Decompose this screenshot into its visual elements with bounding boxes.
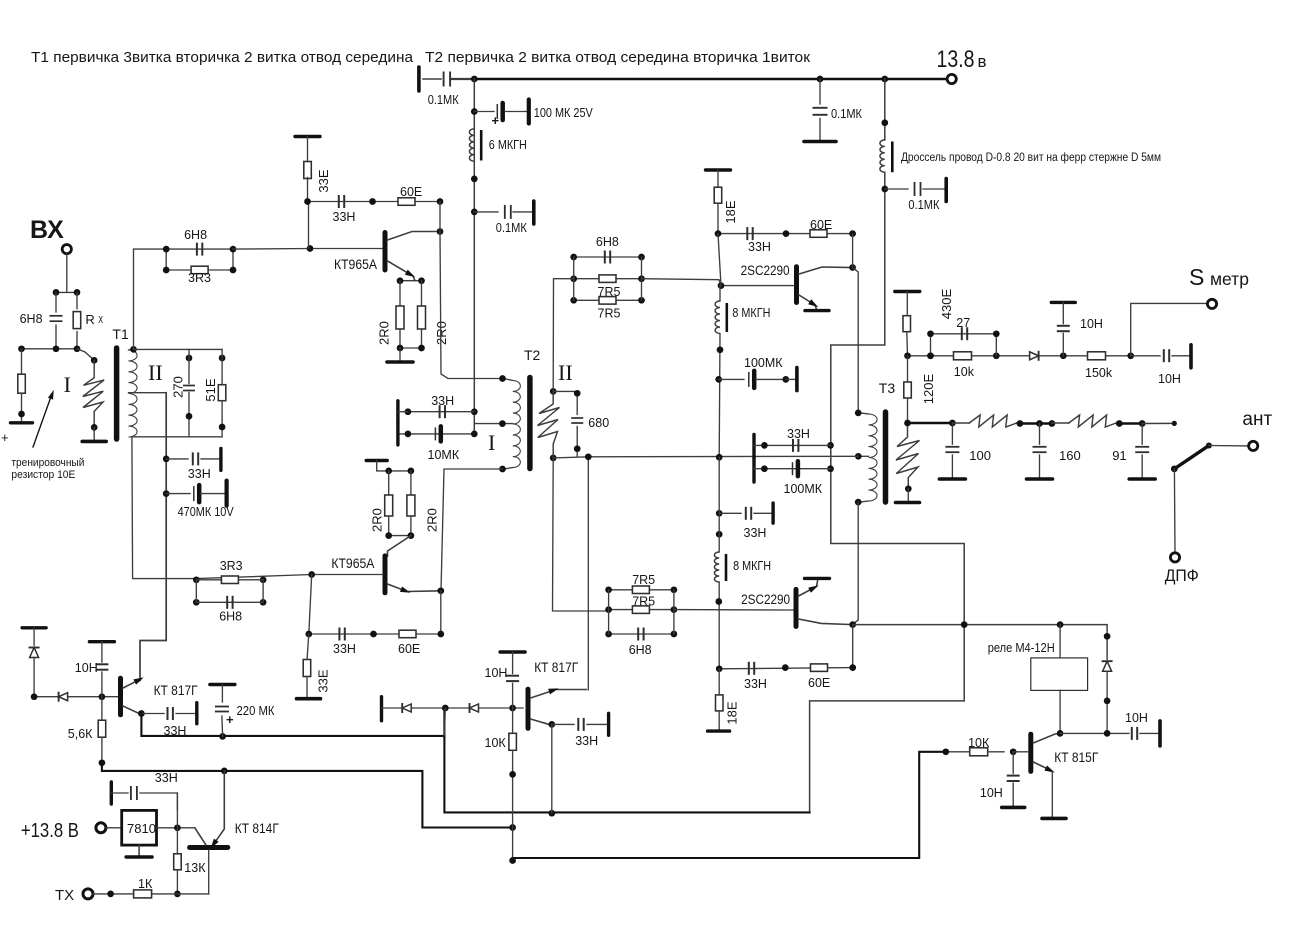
svg-text:27: 27 [956,316,970,330]
svg-text:6Н8: 6Н8 [184,228,207,242]
svg-text:33Е: 33Е [316,169,331,192]
svg-text:5,6К: 5,6К [68,727,93,741]
svg-text:33Н: 33Н [575,734,598,748]
svg-text:метр: метр [1210,269,1249,289]
svg-text:КТ 817Г: КТ 817Г [154,683,199,698]
svg-text:КТ965А: КТ965А [334,257,377,272]
svg-text:2R0: 2R0 [370,508,385,532]
svg-text:резистор 10Е: резистор 10Е [11,469,75,481]
svg-text:I: I [488,430,495,455]
svg-text:33Н: 33Н [744,677,767,691]
svg-text:КТ 815Г: КТ 815Г [1054,750,1099,765]
svg-text:100: 100 [969,448,991,463]
svg-text:Т2: Т2 [524,347,541,363]
svg-text:10Н: 10Н [75,661,98,675]
svg-text:8 МКГН: 8 МКГН [732,305,770,320]
svg-text:10Н: 10Н [980,786,1003,800]
svg-text:II: II [148,360,163,385]
svg-text:10Н: 10Н [1158,372,1181,386]
svg-text:33Н: 33Н [155,771,178,785]
svg-text:тренировочный: тренировочный [11,457,84,469]
svg-text:2R0: 2R0 [377,321,392,345]
svg-text:10Н: 10Н [1125,711,1148,725]
svg-text:6Н8: 6Н8 [629,643,652,657]
svg-text:S: S [1189,264,1204,290]
svg-text:33Н: 33Н [333,210,356,224]
svg-text:100МК: 100МК [784,482,823,496]
svg-text:270: 270 [171,376,186,398]
svg-text:7810: 7810 [127,821,156,836]
svg-text:+: + [492,113,500,128]
svg-text:в: в [978,52,987,71]
svg-text:60Е: 60Е [810,218,832,232]
svg-text:10К: 10К [485,736,507,750]
svg-text:470МК 10V: 470МК 10V [178,505,235,519]
svg-text:33Н: 33Н [787,427,810,441]
svg-text:33Н: 33Н [333,642,356,656]
svg-text:680: 680 [588,416,609,430]
svg-text:+13.8 В: +13.8 В [21,820,79,842]
svg-text:6Н8: 6Н8 [596,235,619,249]
svg-text:Т2 первичка 2 витка отвод сере: Т2 первичка 2 витка отвод середина втори… [425,49,810,66]
svg-text:КТ 814Г: КТ 814Г [235,821,280,836]
svg-text:7R5: 7R5 [632,573,655,587]
svg-text:Дроссель провод D-0.8 20 вит н: Дроссель провод D-0.8 20 вит на ферр сте… [901,152,1161,164]
svg-text:13К: 13К [184,861,206,875]
svg-text:+: + [226,712,234,727]
svg-text:33Н: 33Н [744,526,767,540]
svg-text:33Н: 33Н [431,394,454,408]
svg-text:10К: 10К [968,736,990,750]
svg-text:2R0: 2R0 [425,508,440,532]
svg-text:6 МКГН: 6 МКГН [489,137,527,152]
svg-text:0.1МК: 0.1МК [831,107,863,121]
svg-text:60Е: 60Е [400,185,422,199]
svg-text:2SC2290: 2SC2290 [741,592,790,607]
svg-text:6Н8: 6Н8 [219,610,242,624]
svg-text:Т1: Т1 [112,326,129,342]
svg-text:3R3: 3R3 [220,559,243,573]
svg-text:I: I [64,372,71,397]
svg-text:100МК: 100МК [744,356,783,370]
svg-text:Т3: Т3 [879,380,896,396]
svg-text:ТХ: ТХ [55,887,74,904]
svg-text:R ᵡ: R ᵡ [85,312,103,327]
svg-text:160: 160 [1059,448,1081,463]
svg-text:3R3: 3R3 [188,271,211,285]
svg-text:10k: 10k [954,365,975,379]
svg-text:0.1МК: 0.1МК [428,93,460,107]
svg-text:60Е: 60Е [808,676,830,690]
svg-text:8 МКГН: 8 МКГН [733,558,771,573]
svg-text:220 МК: 220 МК [237,703,275,718]
svg-text:100 МК 25V: 100 МК 25V [534,105,593,120]
svg-text:6Н8: 6Н8 [20,312,43,326]
svg-text:120Е: 120Е [921,373,936,404]
svg-text:33Н: 33Н [748,240,771,254]
svg-text:430Е: 430Е [939,288,954,319]
svg-text:КТ965А: КТ965А [331,556,374,571]
svg-text:51Е: 51Е [203,378,218,401]
svg-text:0.1МК: 0.1МК [908,198,940,212]
svg-text:КТ 817Г: КТ 817Г [534,660,579,675]
svg-text:Т1 первичка 3витка вторичка 2: Т1 первичка 3витка вторичка 2 витка отво… [31,49,414,66]
svg-text:+: + [1,430,9,445]
svg-text:33Н: 33Н [188,467,211,481]
svg-text:18Е: 18Е [723,200,738,223]
svg-text:13.8: 13.8 [937,46,975,73]
svg-text:0.1МК: 0.1МК [496,221,528,235]
svg-text:150k: 150k [1085,366,1113,380]
svg-text:ВХ: ВХ [30,216,64,244]
svg-text:18Е: 18Е [725,701,740,724]
svg-text:реле М4-12Н: реле М4-12Н [988,640,1055,655]
svg-text:7R5: 7R5 [632,595,655,609]
svg-text:ант: ант [1242,409,1272,430]
svg-text:7R5: 7R5 [598,285,621,299]
svg-text:60Е: 60Е [398,642,420,656]
svg-text:ДПФ: ДПФ [1165,566,1199,585]
svg-text:33Е: 33Е [316,669,331,692]
svg-text:10МК: 10МК [428,448,460,462]
svg-text:10Н: 10Н [1080,317,1103,331]
svg-text:2R0: 2R0 [434,321,449,345]
svg-text:7R5: 7R5 [598,307,621,321]
svg-text:II: II [558,360,573,385]
svg-text:10Н: 10Н [485,666,508,680]
svg-text:2SC2290: 2SC2290 [741,263,790,278]
svg-text:91: 91 [1112,448,1126,463]
svg-text:1К: 1К [138,877,153,891]
